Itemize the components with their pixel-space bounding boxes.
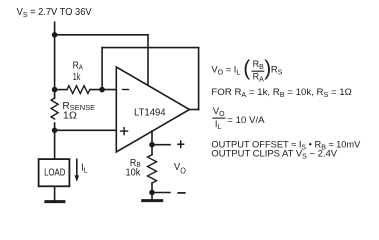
formula conditions line	[211, 86, 352, 99]
node junction RA-VS	[52, 87, 58, 93]
svg-text:LT1494: LT1494	[134, 107, 166, 118]
node junction feedback-inverting input	[99, 87, 105, 93]
wire RA right to inverting input	[90, 89, 116, 91]
formula output clips line	[211, 148, 337, 161]
wire top supply branch horizontal	[55, 34, 148, 36]
svg-text:OUTPUT CLIPS AT VS − 2.4V: OUTPUT CLIPS AT VS − 2.4V	[211, 148, 337, 161]
svg-text:RS: RS	[271, 63, 283, 76]
svg-text:RA: RA	[253, 72, 265, 84]
formula fraction bar VO/IL	[213, 117, 225, 119]
wire feedback vertical right to output	[198, 48, 200, 110]
svg-text:IL: IL	[215, 118, 222, 131]
ground at RB	[143, 199, 162, 202]
node label plus	[178, 141, 184, 148]
op-amp U1 LT1494	[116, 67, 189, 152]
svg-text:VO = IL: VO = IL	[211, 63, 240, 76]
wire op-amp output	[190, 109, 199, 111]
resistor RSENSE	[51, 98, 58, 119]
svg-text:= 10 V/A: = 10 V/A	[227, 114, 265, 125]
svg-text:LOAD: LOAD	[44, 168, 65, 179]
resistor RA	[67, 86, 90, 94]
wire VO minus terminal	[152, 192, 170, 194]
svg-text:VO: VO	[174, 162, 186, 175]
node label minus	[178, 192, 185, 194]
wire load bottom	[54, 186, 56, 200]
node junction RB bottom	[149, 190, 155, 196]
svg-text:VO: VO	[213, 105, 225, 118]
formula VO equation	[211, 57, 282, 83]
op-amp inverting input symbol	[123, 89, 129, 91]
op-amp non-inverting input symbol	[121, 128, 128, 135]
wire op-amp V- pin vertical	[151, 131, 153, 155]
wire VS rail between RSENSE and load node	[54, 123, 56, 130]
wire feedback vertical left	[101, 48, 103, 90]
resistor RB	[148, 155, 157, 183]
node junction V- and RB top	[149, 142, 155, 148]
svg-text:FOR RA = 1k, RB = 10k, RS = 1Ω: FOR RA = 1k, RB = 10k, RS = 1Ω	[211, 86, 352, 99]
formula output offset line	[211, 138, 361, 151]
svg-text:1k: 1k	[73, 72, 81, 83]
wire non-inverting input	[55, 129, 117, 131]
current arrow IL	[76, 159, 78, 176]
svg-text:RB: RB	[253, 59, 265, 71]
wire VS rail top	[54, 22, 56, 98]
svg-text:10k: 10k	[126, 168, 142, 179]
svg-text:VS = 2.7V TO 36V: VS = 2.7V TO 36V	[17, 7, 92, 19]
wire VO plus terminal	[152, 144, 170, 146]
load box	[39, 159, 70, 186]
svg-text:RA: RA	[73, 60, 83, 71]
formula fraction bar RB/RA	[252, 70, 264, 72]
wire op-amp V+ pin vertical	[147, 35, 149, 85]
wire RB bottom	[151, 183, 153, 200]
node junction VS-branch	[52, 32, 58, 38]
ground at load	[46, 200, 64, 203]
wire load top	[54, 130, 56, 159]
formula VO over IL	[213, 105, 265, 131]
svg-text:IL: IL	[81, 163, 87, 175]
node junction RSENSE-load	[52, 128, 58, 134]
node VS supply label	[17, 7, 92, 19]
svg-text:1Ω: 1Ω	[63, 111, 77, 122]
svg-text:(: (	[243, 57, 250, 80]
wire feedback horizontal top	[102, 47, 199, 49]
node label VO	[174, 162, 186, 175]
wire RA left	[55, 89, 67, 91]
